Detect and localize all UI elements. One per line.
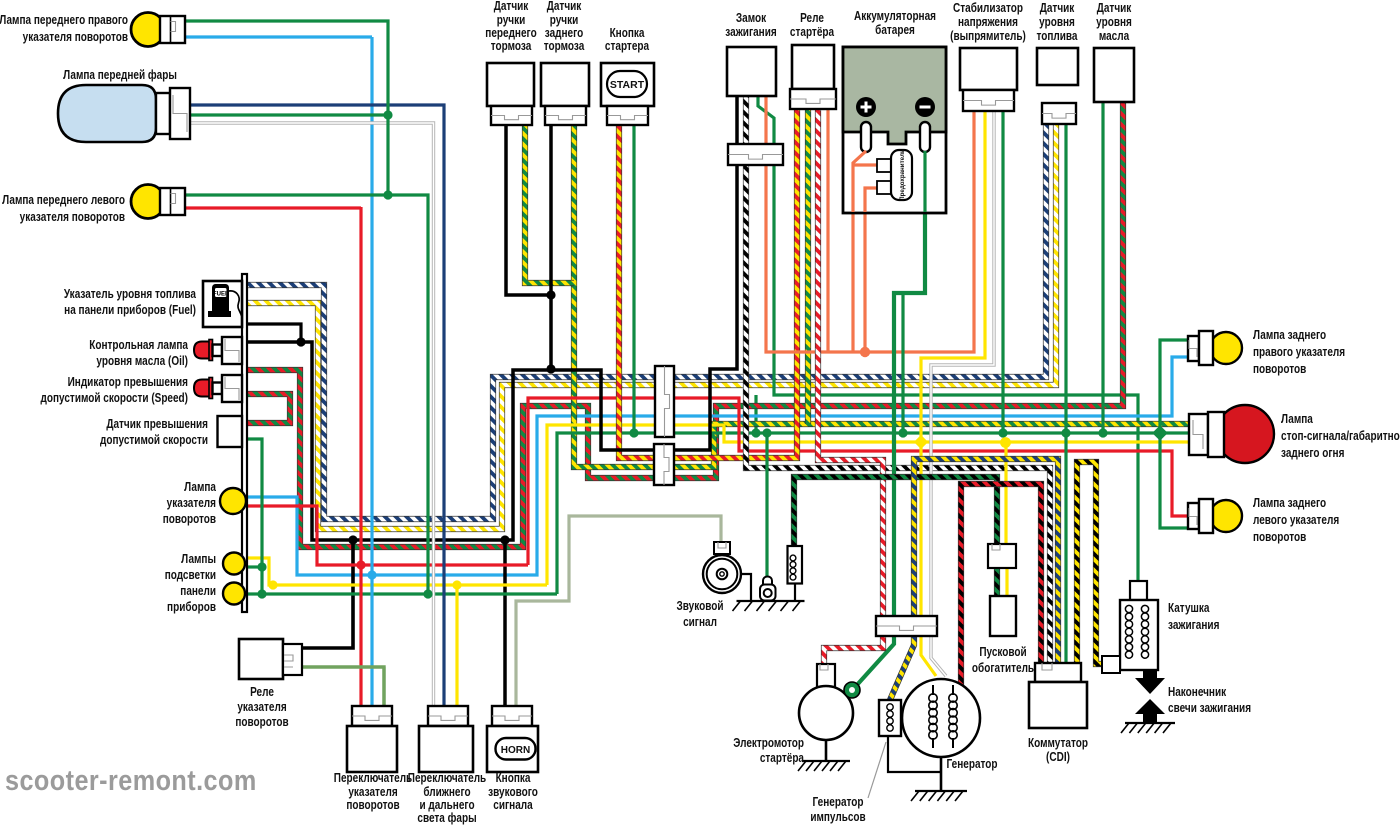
svg-text:START: START [610, 79, 645, 91]
svg-text:Электромотор: Электромотор [733, 736, 804, 751]
svg-text:указателя поворотов: указателя поворотов [23, 30, 128, 45]
svg-text:батарея: батарея [875, 23, 915, 38]
svg-text:допустимой скорости: допустимой скорости [100, 433, 208, 448]
svg-text:Предохранитель: Предохранитель [899, 149, 906, 201]
svg-text:на панели приборов (Fuel): на панели приборов (Fuel) [64, 303, 196, 318]
svg-text:Пусковой: Пусковой [979, 645, 1026, 660]
svg-text:Переключатель: Переключатель [334, 771, 412, 786]
svg-text:тормоза: тормоза [491, 39, 532, 54]
svg-text:стартёра: стартёра [790, 25, 835, 40]
svg-text:FUEL: FUEL [213, 292, 229, 298]
svg-text:приборов: приборов [167, 600, 216, 615]
svg-text:уровня: уровня [1039, 15, 1075, 30]
svg-text:Лампа заднего: Лампа заднего [1253, 328, 1326, 343]
svg-text:Лампа: Лампа [184, 480, 216, 495]
svg-text:тормоза: тормоза [544, 39, 585, 54]
svg-text:Кнопка: Кнопка [496, 771, 531, 786]
svg-text:Датчик: Датчик [1040, 1, 1075, 16]
svg-text:сигнал: сигнал [683, 615, 717, 630]
svg-text:Индикатор превышения: Индикатор превышения [68, 375, 188, 390]
svg-text:сигнала: сигнала [493, 798, 533, 813]
svg-text:Указатель уровня топлива: Указатель уровня топлива [64, 287, 197, 302]
svg-text:Лампа переднего правого: Лампа переднего правого [0, 13, 128, 28]
svg-text:Переключатель: Переключатель [408, 771, 486, 786]
svg-text:света фары: света фары [417, 811, 476, 826]
svg-text:Датчик: Датчик [1097, 1, 1132, 16]
svg-text:Аккумуляторная: Аккумуляторная [854, 9, 936, 24]
svg-text:правого указателя: правого указателя [1253, 345, 1345, 360]
svg-text:Катушка: Катушка [1168, 601, 1210, 616]
svg-text:Реле: Реле [250, 685, 274, 700]
svg-text:уровня масла (Oil): уровня масла (Oil) [96, 354, 188, 369]
svg-text:поворотов: поворотов [163, 512, 216, 527]
svg-text:Лампа заднего: Лампа заднего [1253, 496, 1326, 511]
svg-text:заднего огня: заднего огня [1281, 446, 1344, 461]
svg-text:Лампа переднего левого: Лампа переднего левого [2, 193, 125, 208]
svg-text:импульсов: импульсов [810, 810, 865, 825]
svg-text:указателя поворотов: указателя поворотов [20, 210, 125, 225]
svg-text:обогатитель: обогатитель [972, 661, 1034, 676]
svg-text:Коммутатор: Коммутатор [1028, 736, 1088, 751]
svg-text:Датчик превышения: Датчик превышения [106, 417, 208, 432]
svg-text:напряжения: напряжения [958, 15, 1018, 30]
svg-text:HORN: HORN [501, 745, 530, 756]
svg-text:Генератор: Генератор [947, 757, 998, 772]
svg-text:Датчик: Датчик [494, 0, 529, 13]
svg-text:Замок: Замок [736, 11, 766, 26]
svg-text:Реле: Реле [800, 11, 824, 26]
svg-text:поворотов: поворотов [235, 715, 288, 730]
svg-text:Звуковой: Звуковой [677, 599, 724, 614]
svg-text:scooter-remont.com: scooter-remont.com [5, 763, 257, 796]
svg-text:Генератор: Генератор [813, 795, 864, 810]
svg-text:свечи зажигания: свечи зажигания [1168, 701, 1251, 716]
svg-text:масла: масла [1099, 29, 1130, 44]
svg-text:Датчик: Датчик [547, 0, 582, 13]
svg-text:зажигания: зажигания [1168, 618, 1219, 633]
svg-text:поворотов: поворотов [346, 798, 399, 813]
svg-text:допустимой скорости (Speed): допустимой скорости (Speed) [41, 391, 189, 406]
svg-text:уровня: уровня [1096, 15, 1132, 30]
svg-text:стоп-сигнала/габаритного: стоп-сигнала/габаритного [1281, 429, 1400, 444]
svg-text:топлива: топлива [1036, 29, 1077, 44]
svg-text:подсветки: подсветки [165, 568, 216, 583]
svg-text:левого указателя: левого указателя [1253, 513, 1339, 528]
svg-text:(выпрямитель): (выпрямитель) [950, 29, 1026, 44]
svg-text:зажигания: зажигания [725, 25, 776, 40]
svg-text:стартёра: стартёра [760, 751, 805, 766]
svg-text:поворотов: поворотов [1253, 362, 1306, 377]
svg-text:указателя: указателя [237, 700, 286, 715]
svg-text:Лампы: Лампы [181, 552, 216, 567]
svg-text:Стабилизатор: Стабилизатор [953, 1, 1023, 16]
svg-text:Лампа передней фары: Лампа передней фары [63, 68, 177, 83]
svg-text:Наконечник: Наконечник [1168, 685, 1226, 700]
svg-text:поворотов: поворотов [1253, 530, 1306, 545]
svg-text:панели: панели [180, 584, 216, 599]
svg-text:Контрольная лампа: Контрольная лампа [89, 338, 188, 353]
svg-text:стартера: стартера [605, 39, 650, 54]
svg-text:указателя: указателя [167, 496, 216, 511]
svg-text:(CDI): (CDI) [1046, 750, 1070, 765]
svg-text:Лампа: Лампа [1281, 412, 1313, 427]
